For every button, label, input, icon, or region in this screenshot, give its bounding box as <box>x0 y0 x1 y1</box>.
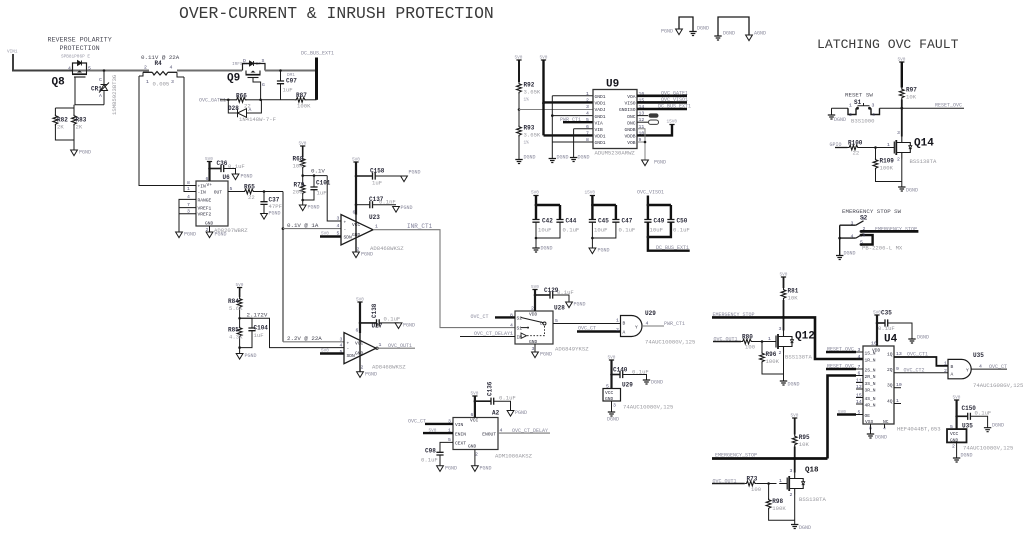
svg-text:15V0: 15V0 <box>667 120 678 125</box>
svg-text:DGND: DGND <box>875 435 887 441</box>
capacitor C47 0.1uF <box>591 218 635 249</box>
svg-text:VCC: VCC <box>605 390 614 396</box>
svg-text:1uF: 1uF <box>254 332 264 339</box>
svg-text:R85: R85 <box>228 327 239 334</box>
svg-text:AD8468WKSZ: AD8468WKSZ <box>370 245 404 252</box>
gate U35 74AUC1G08 AND <box>944 352 1023 389</box>
svg-text:R96: R96 <box>766 351 777 358</box>
svg-text:6: 6 <box>356 328 359 334</box>
net-tie PGND to DGND <box>661 17 709 36</box>
svg-text:10K: 10K <box>906 94 917 101</box>
wire main rail R4 to Q9 <box>177 70 242 72</box>
no-connect pin12 <box>637 120 659 124</box>
wire 0.1V ref to U23 pin3 <box>327 176 341 221</box>
svg-text:3: 3 <box>858 347 861 353</box>
svg-text:5V0: 5V0 <box>236 283 244 288</box>
svg-text:5V0: 5V0 <box>531 191 539 196</box>
svg-text:OVC_GATE1: OVC_GATE1 <box>199 98 226 104</box>
wire U35 power gnd <box>956 442 958 458</box>
svg-text:2: 2 <box>531 306 534 312</box>
svg-text:VSS: VSS <box>865 419 874 425</box>
svg-text:1: 1 <box>146 79 149 85</box>
svg-text:0.1uF: 0.1uF <box>632 369 649 376</box>
wire 5V0 to U6 V+ <box>208 162 210 182</box>
svg-text:2K: 2K <box>57 124 64 131</box>
svg-text:R81: R81 <box>788 288 799 295</box>
svg-text:GND: GND <box>355 351 364 357</box>
ground PGND C36 <box>232 174 252 180</box>
svg-text:4: 4 <box>851 234 854 240</box>
ground DGND C150 <box>984 423 1004 432</box>
svg-text:PGND: PGND <box>480 466 492 472</box>
svg-text:10K: 10K <box>788 295 799 302</box>
svg-text:D: D <box>243 58 246 64</box>
svg-text:OE: OE <box>865 413 871 419</box>
svg-text:4: 4 <box>586 111 589 117</box>
svg-text:0.1V: 0.1V <box>311 168 325 175</box>
pin 3Q stub <box>894 382 902 388</box>
svg-text:A: A <box>951 372 954 378</box>
svg-text:0.1uF: 0.1uF <box>421 457 438 464</box>
svg-text:2: 2 <box>475 452 478 458</box>
ground DGND R93 <box>515 155 535 164</box>
svg-text:GND: GND <box>468 444 477 450</box>
svg-text:1: 1 <box>944 361 947 367</box>
wire 5V0 to A2 VCC <box>474 396 476 418</box>
transistor Q12 BSS138TA <box>768 326 815 361</box>
svg-text:1: 1 <box>862 216 865 222</box>
wire Q9 source to DC bus <box>265 70 317 72</box>
wire Q12 source to DGND <box>783 353 785 382</box>
svg-text:C140: C140 <box>613 367 628 374</box>
wire SDN stub U27 <box>320 349 344 354</box>
svg-text:3: 3 <box>851 221 854 227</box>
ground DGND C42 <box>532 246 552 253</box>
svg-text:5V0: 5V0 <box>898 58 906 63</box>
svg-text:DNC: DNC <box>627 120 636 126</box>
svg-text:-: - <box>347 347 350 352</box>
capacitor C35 0.1uF <box>877 310 912 340</box>
svg-text:5: 5 <box>88 66 91 72</box>
op-amp U29 power box <box>603 382 673 411</box>
transistor Q8 <box>52 61 92 89</box>
svg-text:GND1: GND1 <box>595 94 606 100</box>
svg-text:DGND: DGND <box>961 453 973 459</box>
power 5V0 U4 <box>873 311 881 319</box>
svg-text:1Q: 1Q <box>887 352 893 358</box>
svg-text:1R_N: 1R_N <box>865 358 876 364</box>
wire EMERGENCY_STOP top rail to U4 1R_N <box>712 312 863 359</box>
svg-text:EMERGENCY STOP SW: EMERGENCY STOP SW <box>842 208 902 215</box>
svg-text:DGND: DGND <box>788 382 800 388</box>
svg-text:C97: C97 <box>286 78 297 85</box>
svg-text:10K: 10K <box>293 163 304 170</box>
svg-text:GNDISO: GNDISO <box>619 107 636 113</box>
svg-text:VOB: VOB <box>627 140 636 146</box>
transistor Q18 BSS138TA <box>779 467 826 504</box>
svg-text:10uF: 10uF <box>650 227 663 234</box>
svg-text:HEF4044BT,653: HEF4044BT,653 <box>897 426 941 433</box>
svg-text:1: 1 <box>375 224 378 230</box>
svg-text:74AUC1G08GV,125: 74AUC1G08GV,125 <box>645 339 695 346</box>
wire 5V0 to U28 VDD <box>534 290 536 312</box>
capacitor C137 0.1nF <box>356 196 396 208</box>
svg-text:5: 5 <box>606 384 609 390</box>
svg-text:PGND: PGND <box>269 211 281 217</box>
svg-text:0.1nF: 0.1nF <box>379 199 396 206</box>
svg-text:R95: R95 <box>799 434 810 441</box>
heading REVERSE POLARITY PROTECTION <box>48 37 112 60</box>
svg-text:SDN: SDN <box>347 353 356 359</box>
wire U28 GND to PGND <box>534 344 536 352</box>
svg-text:PGND: PGND <box>409 170 421 176</box>
ground DGND VIB <box>570 155 590 162</box>
wire U6 VREF bracket to ground <box>179 199 191 232</box>
svg-text:A: A <box>623 330 626 336</box>
svg-text:3.65K: 3.65K <box>524 89 541 96</box>
module A2 ADM1086AKSZ <box>448 410 533 460</box>
ground PGND divider <box>236 346 256 359</box>
svg-text:GND: GND <box>605 396 614 402</box>
svg-text:3.65K: 3.65K <box>524 132 541 139</box>
svg-text:4R_N: 4R_N <box>865 403 876 409</box>
node DC_BUS_EXT1 bus bar <box>301 51 334 100</box>
svg-text:5V0: 5V0 <box>608 356 616 361</box>
svg-text:5V0: 5V0 <box>540 56 548 61</box>
svg-text:2R_N: 2R_N <box>865 374 876 380</box>
svg-text:0.1uF: 0.1uF <box>619 227 636 234</box>
svg-text:A: A <box>249 107 252 113</box>
svg-text:RESET_OVC: RESET_OVC <box>935 103 962 109</box>
wire PWR_CT1 stub to VIA <box>560 117 593 123</box>
svg-text:1N4148W-7-F: 1N4148W-7-F <box>239 116 276 123</box>
ground PGND C98 <box>437 466 457 472</box>
wire RESET_OVC <box>880 103 965 110</box>
svg-text:PGND: PGND <box>445 466 457 472</box>
svg-text:C47: C47 <box>622 218 633 225</box>
svg-text:U35: U35 <box>962 423 973 430</box>
wire 5V0 stub to OE <box>837 410 856 415</box>
svg-text:PGND: PGND <box>403 323 415 329</box>
svg-text:4: 4 <box>337 223 340 229</box>
svg-text:3: 3 <box>171 79 174 85</box>
svg-text:DGND: DGND <box>557 155 569 161</box>
resistor R65 22 <box>243 184 255 202</box>
svg-text:GNDB: GNDB <box>624 127 635 133</box>
wire Q8 gate to CR1 node <box>75 77 104 105</box>
power 5V0 U28 <box>531 285 539 293</box>
svg-text:S: S <box>262 58 265 64</box>
resistor R93 3.65K <box>517 108 541 159</box>
wire S2 common to DGND <box>836 251 856 260</box>
svg-text:VCC: VCC <box>355 341 364 347</box>
pin NC stub U4 <box>884 424 886 428</box>
resistor R82 2K <box>53 105 74 140</box>
svg-text:0.1uF: 0.1uF <box>228 163 245 170</box>
capacitor C45 10uF <box>585 191 616 234</box>
svg-text:GND1: GND1 <box>595 140 606 146</box>
svg-text:16: 16 <box>871 341 877 347</box>
svg-text:R82: R82 <box>57 117 68 124</box>
op-amp U27 AD8468WKSZ <box>340 323 407 371</box>
wire Q9 gate drop <box>253 78 261 100</box>
svg-text:+: + <box>344 221 347 226</box>
svg-text:A2: A2 <box>492 410 500 417</box>
svg-text:PGND: PGND <box>215 232 227 238</box>
svg-text:BSS138TA: BSS138TA <box>799 496 826 503</box>
capacitor C150 0.1uF <box>957 400 992 429</box>
svg-text:DNC: DNC <box>627 114 636 120</box>
svg-text:1uF: 1uF <box>372 180 382 187</box>
svg-text:INR_CT1: INR_CT1 <box>407 223 433 230</box>
svg-text:5V0: 5V0 <box>953 396 961 401</box>
svg-text:VIN: VIN <box>455 422 464 428</box>
svg-text:R66: R66 <box>236 93 247 100</box>
resistor R109 100K <box>873 146 902 181</box>
svg-text:C49: C49 <box>654 218 665 225</box>
ground PGND U27 <box>357 372 377 378</box>
ground DGND Q14 <box>898 187 918 194</box>
svg-text:U29: U29 <box>645 310 656 317</box>
power 5V0 R84 <box>236 283 244 291</box>
svg-text:OVC_CT: OVC_CT <box>471 314 489 320</box>
svg-text:3: 3 <box>532 346 535 352</box>
svg-text:R68: R68 <box>293 156 304 163</box>
svg-text:3: 3 <box>790 468 793 474</box>
svg-text:ENIN: ENIN <box>455 431 466 437</box>
wire 5V0 to U23 VCC <box>355 162 357 215</box>
svg-text:VISO: VISO <box>624 101 635 107</box>
svg-text:PGND: PGND <box>540 352 552 358</box>
svg-text:PB-2206-L MX: PB-2206-L MX <box>862 245 903 252</box>
wire GPIO to R100 <box>830 142 848 148</box>
svg-text:14: 14 <box>856 399 862 405</box>
svg-text:R80: R80 <box>742 334 753 341</box>
svg-text:5: 5 <box>858 410 861 416</box>
no-connect pin13 <box>637 113 659 117</box>
svg-text:A: A <box>99 93 102 99</box>
svg-text:3: 3 <box>340 337 343 343</box>
wire Q18 source to DGND <box>794 495 796 525</box>
svg-text:0.005: 0.005 <box>153 81 170 88</box>
wire SDN stub U23 <box>320 232 341 237</box>
svg-text:AGND: AGND <box>754 31 766 37</box>
svg-text:CR1: CR1 <box>91 86 102 93</box>
wire OVC_CT_DELAY to IN <box>460 331 515 337</box>
svg-text:DGND: DGND <box>844 251 856 257</box>
svg-text:PGND: PGND <box>308 205 320 211</box>
ground DGND U29 <box>607 412 619 423</box>
svg-text:B3S1000: B3S1000 <box>851 118 875 125</box>
svg-text:C98: C98 <box>425 448 436 455</box>
svg-text:PROTECTION: PROTECTION <box>60 45 100 53</box>
svg-text:-: - <box>344 228 347 233</box>
svg-text:NC: NC <box>883 419 889 425</box>
svg-text:4: 4 <box>340 343 343 349</box>
svg-text:SDN: SDN <box>344 235 353 241</box>
svg-text:6: 6 <box>858 371 861 377</box>
svg-text:200: 200 <box>293 189 304 196</box>
resistor R68 10K <box>293 146 306 176</box>
ground PGND U9 <box>642 160 666 166</box>
wire 5V0 to U4 VDD <box>876 315 878 346</box>
svg-text:2: 2 <box>944 368 947 374</box>
ground PGND U28 <box>532 352 552 358</box>
svg-text:VDD1: VDD1 <box>595 134 606 140</box>
svg-text:+IN: +IN <box>198 184 207 190</box>
svg-text:B: B <box>951 364 954 370</box>
svg-text:2: 2 <box>586 97 589 103</box>
svg-text:4: 4 <box>68 66 71 72</box>
svg-text:15V0: 15V0 <box>585 191 596 196</box>
op-amp U35 power box <box>947 423 1013 452</box>
wire gate rail to R87 <box>261 99 295 101</box>
ground DGND U35 <box>953 453 973 463</box>
svg-text:0.1V @ 1A: 0.1V @ 1A <box>287 222 319 229</box>
svg-text:3S_N: 3S_N <box>865 381 876 387</box>
svg-text:10uF: 10uF <box>594 227 607 234</box>
svg-text:74AUC1G08GV,125: 74AUC1G08GV,125 <box>623 404 673 411</box>
svg-text:U28: U28 <box>554 305 565 312</box>
svg-text:C42: C42 <box>542 218 553 225</box>
svg-text:R79: R79 <box>294 182 305 189</box>
svg-text:R83: R83 <box>76 117 87 124</box>
svg-text:ADG849YKSZ: ADG849YKSZ <box>555 346 589 353</box>
svg-text:U6: U6 <box>223 174 231 181</box>
diode D28 1N4148W-7-F <box>227 99 276 124</box>
svg-text:R92: R92 <box>524 82 535 89</box>
svg-text:PGND: PGND <box>574 302 586 308</box>
svg-text:VIB: VIB <box>595 127 604 133</box>
svg-text:5V0: 5V0 <box>515 56 523 61</box>
svg-text:GND1: GND1 <box>595 114 606 120</box>
svg-text:15: 15 <box>856 393 862 399</box>
svg-text:1: 1 <box>849 103 852 109</box>
svg-text:1: 1 <box>510 331 513 337</box>
wire R4 kelvin sense left to U6 +IN <box>139 76 196 186</box>
svg-text:IRFS3816PBF: IRFS3816PBF <box>232 62 261 67</box>
svg-text:0.1uF: 0.1uF <box>673 227 690 234</box>
ground PGND below R83 <box>71 150 91 156</box>
svg-text:100K: 100K <box>297 103 311 110</box>
wire OVC_CT stub to A2 VIN <box>408 419 453 425</box>
svg-text:PGND: PGND <box>654 160 666 166</box>
power 5V0 R81 <box>780 273 788 281</box>
capacitor C97 1uF <box>277 69 297 100</box>
svg-text:C45: C45 <box>598 218 609 225</box>
wire A2 GND to PGND <box>474 450 476 466</box>
svg-text:DGND: DGND <box>524 155 536 161</box>
resistor R96 100K <box>760 340 784 374</box>
power 15V0 to VDDB <box>637 120 677 136</box>
transistor Q14 BSS138TA <box>886 130 937 165</box>
svg-text:U29: U29 <box>622 382 633 389</box>
svg-text:CEXT: CEXT <box>455 441 466 447</box>
svg-text:1%: 1% <box>524 141 530 146</box>
svg-text:3: 3 <box>897 130 900 136</box>
svg-text:VREF2: VREF2 <box>198 212 212 218</box>
svg-text:74AUC1G08GV,125: 74AUC1G08GV,125 <box>963 445 1013 452</box>
ground PGND C129 <box>566 302 586 308</box>
resistor R66 22 <box>235 93 261 110</box>
svg-text:0.1uF: 0.1uF <box>563 227 580 234</box>
wire VADJ from divider <box>519 109 593 111</box>
wire 5V0 stub to A2 ENIN <box>423 429 453 434</box>
isolator U9 ADUM5230ARWZ <box>586 79 644 157</box>
svg-text:2Q: 2Q <box>887 367 893 373</box>
resistor R100 22 <box>848 140 890 157</box>
svg-text:3: 3 <box>613 403 616 409</box>
wire signal junction down to comparators <box>282 192 284 342</box>
svg-text:V+: V+ <box>207 182 213 188</box>
capacitor C136 0.1uF <box>475 381 516 410</box>
svg-text:5V0: 5V0 <box>531 285 539 290</box>
svg-text:5V0: 5V0 <box>352 158 360 163</box>
ground PGND VREF <box>176 232 196 238</box>
node 0.1V <box>301 168 327 177</box>
svg-text:R97: R97 <box>906 87 917 94</box>
ground DGND U4 <box>867 434 887 441</box>
svg-text:2: 2 <box>790 492 793 498</box>
resistor R73 100 <box>745 476 777 493</box>
svg-text:R87: R87 <box>296 92 307 99</box>
capacitor C104 1uF <box>240 318 269 347</box>
svg-text:PGND: PGND <box>361 252 373 258</box>
wire main rail Q8 to R4 <box>72 70 149 72</box>
svg-text:R65: R65 <box>244 184 255 191</box>
svg-text:OVC_CT: OVC_CT <box>408 419 426 425</box>
svg-text:C158: C158 <box>370 168 385 175</box>
ground DGND Q18 <box>791 525 811 532</box>
switch S1 RESET SW B3S1000 <box>832 92 880 125</box>
svg-text:OVER-CURRENT & INRUSH PROTECTI: OVER-CURRENT & INRUSH PROTECTION <box>179 4 494 23</box>
svg-text:DGND: DGND <box>906 188 918 194</box>
svg-text:6: 6 <box>863 233 866 239</box>
svg-text:GND: GND <box>205 221 214 227</box>
ground PGND C137 <box>393 205 413 212</box>
svg-text:2: 2 <box>616 327 619 333</box>
svg-text:6: 6 <box>586 124 589 130</box>
analog switch U28 ADG849YKSZ <box>510 305 589 353</box>
svg-text:0.1uF: 0.1uF <box>384 316 401 323</box>
ground PGND C37 <box>261 211 281 220</box>
wire OVC_CT stub to U29 pinA <box>577 326 621 332</box>
wire INR_CT1 output to U28 S1 <box>373 223 515 328</box>
svg-text:C: C <box>99 77 102 83</box>
ground DGND C140 <box>643 380 663 386</box>
svg-text:22: 22 <box>248 194 255 201</box>
svg-text:VIN1: VIN1 <box>7 50 18 55</box>
resistor R83 2K <box>72 108 87 150</box>
svg-text:DGND: DGND <box>541 246 553 252</box>
svg-text:OVC_VISO1: OVC_VISO1 <box>637 190 664 196</box>
ground PGND C136 <box>507 410 527 416</box>
svg-text:R109: R109 <box>880 158 895 165</box>
svg-text:REVERSE POLARITY: REVERSE POLARITY <box>48 37 112 45</box>
svg-text:C35: C35 <box>881 310 892 317</box>
wire 2.2V@22A into U27 pin3 <box>283 335 344 342</box>
svg-text:+: + <box>347 341 350 346</box>
wire OVC_CT output <box>971 364 1007 370</box>
svg-text:PGND: PGND <box>401 205 413 211</box>
svg-text:1: 1 <box>616 318 619 324</box>
svg-text:OUT: OUT <box>214 189 223 195</box>
svg-text:10K: 10K <box>799 441 810 448</box>
resistor R95 10K <box>792 418 810 473</box>
svg-text:74AUC1G08GV,125: 74AUC1G08GV,125 <box>973 382 1023 389</box>
svg-text:PGND: PGND <box>598 248 610 254</box>
svg-text:C136: C136 <box>487 381 494 396</box>
